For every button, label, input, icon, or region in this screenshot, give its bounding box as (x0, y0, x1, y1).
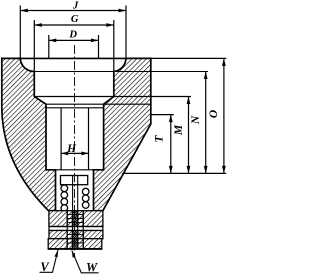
dimension N line (205, 72, 207, 174)
internal shoulder line (chamfer bottom, N reference) (34, 71, 208, 73)
dimension D extension lines (48, 35, 50, 58)
body right half (hatched section) (94, 58, 151, 210)
pocket top line (46, 103, 151, 105)
dimension J line (20, 10, 126, 12)
M arrows (187, 97, 191, 105)
thread line on stem (band 2) (67, 233, 83, 235)
J arrows (20, 9, 28, 13)
svg-text:H: H (66, 143, 77, 155)
N arrows (204, 72, 208, 80)
plate bottom edge (48, 248, 102, 250)
pocket shoulder line (46, 169, 104, 171)
D arrows (49, 39, 57, 43)
H arrows (61, 152, 68, 156)
svg-text:M: M (173, 124, 185, 136)
T arrows (169, 115, 173, 123)
thread lines on stem (band 1) (67, 215, 83, 223)
dimension M line (188, 97, 190, 174)
svg-text:O: O (208, 110, 220, 118)
svg-text:G: G (71, 14, 79, 25)
lower body band 1 (spring seat) (49, 211, 103, 227)
O arrows (222, 58, 226, 66)
right side extension lines (151, 57, 227, 59)
svg-text:T: T (153, 135, 165, 143)
dimension O line (223, 58, 225, 173)
thin gap band (49, 227, 103, 231)
svg-text:J: J (72, 1, 79, 12)
dimension G line (34, 24, 114, 26)
cavity floor line (M reference) (34, 96, 191, 98)
leader W arrowhead (72, 250, 76, 257)
top face line across opening (20, 57, 126, 59)
thread line on stem (plate) (67, 242, 83, 244)
svg-text:W: W (86, 261, 98, 274)
central channel walls through lower bands (66, 211, 68, 249)
leader V (40, 250, 59, 272)
lower body band 2 (49, 231, 103, 239)
svg-text:D: D (68, 30, 77, 41)
arrowheads (20, 9, 226, 174)
dimension H line (61, 152, 88, 154)
G arrows (34, 23, 42, 27)
dimension G extension lines (33, 20, 35, 72)
dimension D line (49, 39, 99, 41)
leader V arrowhead (55, 250, 59, 257)
insert sleeve top line (46, 107, 104, 109)
bottom plate (V/W features) (48, 239, 102, 249)
spring retainer washer (61, 176, 88, 185)
svg-text:N: N (190, 115, 202, 125)
body left half (hatched section) (2, 58, 56, 210)
dimension J extension lines (19, 6, 21, 59)
spring coil sections (61, 185, 89, 211)
dimension T line (170, 115, 172, 174)
centerline (74, 45, 76, 257)
sleeve bore walls (H feature) (60, 108, 62, 170)
leader W (72, 250, 99, 272)
stem (72, 176, 74, 250)
